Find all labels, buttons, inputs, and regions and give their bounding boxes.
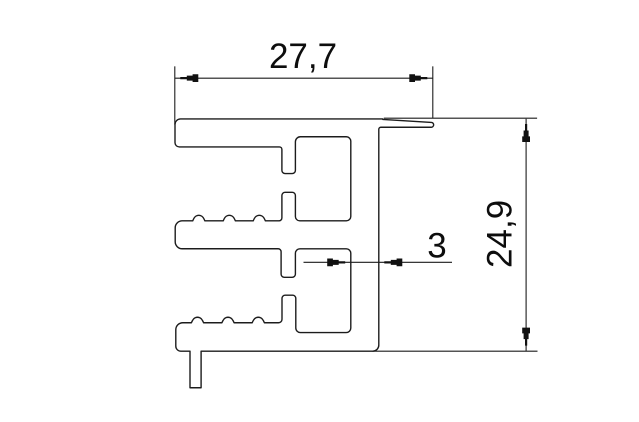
svg-text:3: 3 [427,227,446,266]
dimension 24,9 : arrowhead bottom [522,328,530,346]
dimension 24,9 : arrowhead top [522,124,530,142]
svg-text:27,7: 27,7 [269,37,337,76]
dimension 24,9 : extension line top [384,117,537,119]
dimension 27,7 : dimension line [175,77,433,79]
dimension 24,9 : dimension line [525,119,527,351]
dimension 3 : arrowhead right (points left) [384,258,402,266]
dimension 27,7 : extension line left [174,66,176,124]
dimension 27,7 : extension line right [432,66,434,118]
dimension 27,7 : arrowhead right [409,74,427,82]
dimension 27,7 : arrowhead left [180,74,198,82]
dimension 3 : arrowhead left (points right) [327,258,345,266]
dimension 3 : dimension line [304,261,453,263]
dimension 24,9 : extension line bottom [373,350,538,352]
profile outline (aluminium extrusion cross-section) [175,119,434,388]
svg-text:24,9: 24,9 [481,200,520,268]
